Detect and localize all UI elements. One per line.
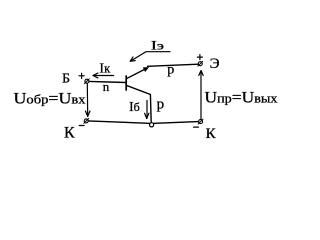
bottom wire (К to К) <box>88 121 198 124</box>
svg-text:К: К <box>64 125 75 142</box>
svg-text:n: n <box>103 79 110 94</box>
voltage arrow Uобр (Б to К, pointing down) <box>85 83 90 116</box>
minus sign at К right <box>194 126 199 128</box>
wire base (Б to bar) <box>89 81 126 82</box>
svg-text:p: p <box>157 97 165 113</box>
terminal Э <box>198 61 203 66</box>
current arrow Iэ (bent, pointing down-left) <box>130 52 170 62</box>
svg-text:Iб: Iб <box>129 100 140 115</box>
svg-text:Б: Б <box>62 71 70 86</box>
minus sign at К left <box>79 125 84 127</box>
terminal К right <box>198 119 203 124</box>
svg-text:Iэ: Iэ <box>151 37 164 52</box>
junction circle at collector node <box>150 123 154 127</box>
wire emitter (arrowhead to Э) <box>148 64 199 66</box>
transistor collector lead (diagonal and vertical) <box>127 86 152 123</box>
transistor emitter arrowhead <box>143 68 148 72</box>
svg-text:p: p <box>167 63 174 78</box>
transistor bar <box>125 76 127 90</box>
svg-text:Iк: Iк <box>99 62 111 77</box>
plus sign at Б <box>79 73 84 78</box>
svg-text:Uпр=Uвых: Uпр=Uвых <box>205 90 279 107</box>
svg-text:Uобр=Uвх: Uобр=Uвх <box>14 90 87 107</box>
svg-text:К: К <box>206 126 217 142</box>
current arrow Iб (pointing down) <box>145 101 149 119</box>
current arrow Iк (pointing left) <box>93 73 114 78</box>
voltage arrow Uпр (К to Э, pointing up) <box>199 71 203 120</box>
transistor emitter diagonal <box>127 68 147 78</box>
terminal Б <box>85 79 90 84</box>
terminal К left <box>84 119 89 124</box>
svg-text:Э: Э <box>210 56 220 72</box>
plus sign at Э <box>197 55 202 60</box>
